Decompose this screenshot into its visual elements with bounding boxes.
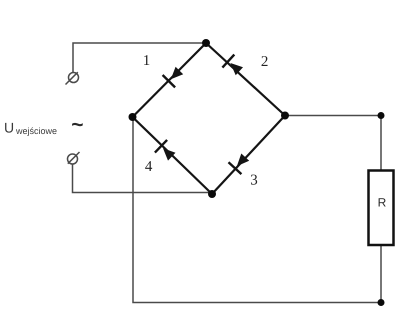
diode D2 (top-right branch, cathode toward top node) — [206, 43, 285, 116]
wire: top input from upper terminal to top node — [73, 43, 206, 73]
diode D1 (top-left branch, cathode toward left node) — [133, 43, 207, 117]
terminal upper (circle with slash) — [66, 72, 79, 84]
wire: right output from right node to resistor top — [285, 116, 381, 171]
svg-text:2: 2 — [261, 54, 269, 70]
wire: lower input from lower terminal to bottom node — [73, 164, 213, 193]
diode D4 (bottom-left branch, cathode toward left node) — [133, 117, 213, 194]
label U wejściowe — [4, 120, 57, 137]
svg-text:wejściowe: wejściowe — [15, 126, 57, 136]
resistor R body — [369, 171, 394, 246]
terminal lower (circle with slash) — [68, 152, 80, 164]
diode D3 (bottom-right branch, cathode toward bottom node) — [212, 116, 285, 195]
node: resistor top junction — [378, 112, 385, 119]
node: right (-) — [281, 112, 289, 120]
node: left (+) — [129, 113, 137, 121]
svg-text:1: 1 — [143, 53, 151, 69]
wire: left output from left node down and along bottom to right dot — [133, 117, 381, 303]
svg-text:4: 4 — [145, 159, 153, 175]
node: bottom-right junction — [378, 299, 385, 306]
svg-text:U: U — [4, 120, 14, 136]
svg-text:R: R — [378, 196, 387, 210]
node: top (AC) — [202, 39, 210, 47]
svg-text:3: 3 — [250, 173, 258, 189]
wire: resistor bottom to bottom rail — [380, 245, 382, 303]
node: bottom (AC) — [208, 190, 216, 198]
svg-text:~: ~ — [71, 113, 83, 136]
